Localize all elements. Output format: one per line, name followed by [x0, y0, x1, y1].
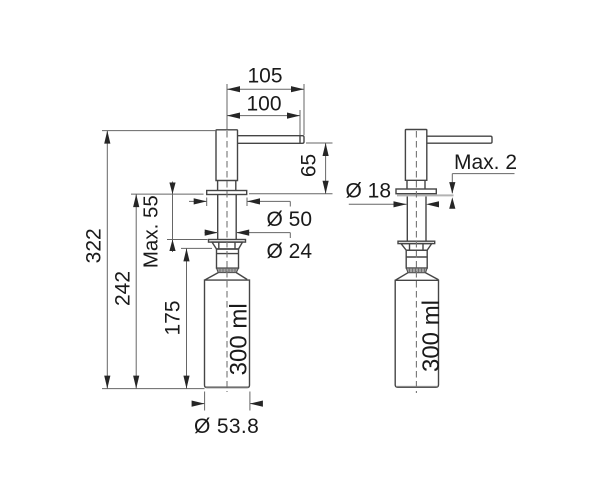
- flange right view: [396, 189, 436, 194]
- threaded tube left view: [218, 195, 237, 240]
- extension line spout end x300: [299, 110, 301, 135]
- svg-text:Max. 55: Max. 55: [140, 195, 163, 268]
- svg-text:175: 175: [162, 300, 185, 335]
- pump lower cylinder right view: [406, 250, 427, 268]
- flange left view: [207, 191, 247, 195]
- centerline right view: [415, 131, 417, 393]
- svg-text:Max. 2: Max. 2: [454, 151, 517, 174]
- bellows gasket right view: [406, 268, 427, 273]
- svg-text:242: 242: [112, 271, 135, 306]
- skirt cone left view: [205, 273, 247, 280]
- dimension 175: [162, 248, 213, 388]
- extension line head axis up: [226, 84, 228, 129]
- dimension 65: [249, 143, 333, 194]
- dimension Max. 2: [449, 151, 517, 209]
- hex nut left view: [212, 242, 243, 249]
- pump lower cylinder left view: [217, 249, 239, 268]
- spout left view: [238, 136, 305, 144]
- head pump body right view: [405, 130, 426, 181]
- bottle left view: [205, 280, 250, 388]
- washer right view: [398, 241, 435, 243]
- svg-text:Ø 53.8: Ø 53.8: [194, 415, 259, 438]
- spout right view: [427, 136, 492, 143]
- svg-text:300 ml: 300 ml: [226, 303, 253, 375]
- svg-text:Ø 24: Ø 24: [267, 240, 313, 263]
- svg-text:100: 100: [246, 93, 281, 116]
- dimension Max. 55: [140, 182, 208, 269]
- threaded tube right view: [407, 197, 426, 242]
- head pump body left view: [216, 130, 238, 181]
- neck below head left view: [218, 181, 236, 191]
- dimension 242: [112, 194, 204, 389]
- dimension 100: [227, 93, 300, 119]
- dimension diameter 50: [189, 198, 312, 232]
- bellows gasket left view: [217, 268, 239, 273]
- svg-text:322: 322: [83, 228, 106, 263]
- svg-text:Ø 50: Ø 50: [267, 208, 313, 231]
- svg-text:Ø 18: Ø 18: [346, 179, 392, 202]
- svg-text:65: 65: [297, 154, 320, 177]
- dimension 105: [227, 65, 304, 93]
- neck below head right view: [407, 180, 425, 189]
- svg-text:105: 105: [247, 65, 282, 88]
- skirt cone right view: [396, 273, 439, 280]
- centerline left view: [226, 131, 228, 392]
- extension line nozzle tip x304: [303, 84, 305, 135]
- gasket line under flange right view: [397, 194, 454, 196]
- dimension diameter 18: [346, 179, 440, 207]
- hex nut right view: [401, 244, 432, 251]
- svg-text:300 ml: 300 ml: [418, 300, 445, 372]
- dimension 322: [83, 131, 217, 389]
- washer left view: [209, 240, 246, 243]
- dimension diameter 53.8: [192, 392, 263, 438]
- dimension diameter 24: [205, 230, 313, 263]
- bottle right view: [395, 280, 438, 387]
